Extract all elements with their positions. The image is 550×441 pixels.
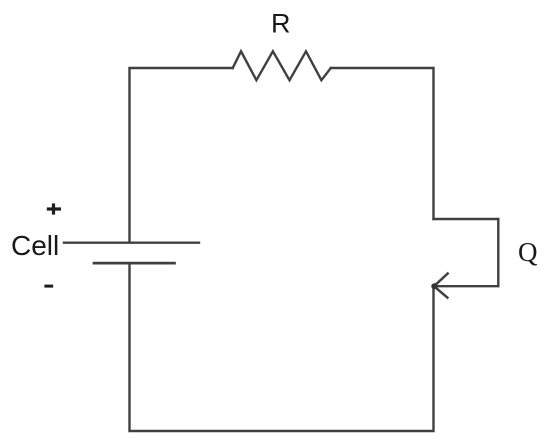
resistor R1 zigzag [233, 51, 331, 80]
wire left-bottom segment [130, 264, 434, 431]
wire top-right segment [331, 68, 434, 219]
wire top-left segment [130, 68, 233, 242]
battery short plate (negative) [94, 262, 175, 265]
battery long plate (positive) [64, 241, 199, 243]
svg-text:R: R [271, 9, 291, 39]
battery minus sign [44, 285, 53, 288]
node arrow tip dot [431, 283, 437, 289]
battery plus sign [47, 203, 61, 214]
current arrowhead [434, 274, 448, 298]
svg-text:Cell: Cell [11, 230, 59, 261]
wire Q detour [434, 219, 499, 286]
svg-text:Q: Q [518, 237, 538, 267]
